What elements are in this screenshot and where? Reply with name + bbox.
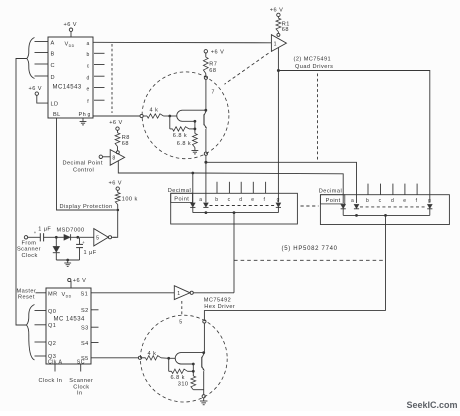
resistor 6.8k base-emitter bottom circle <box>169 369 194 381</box>
svg-text:+6 V: +6 V <box>73 278 86 284</box>
ground below hex driver detail <box>200 398 207 405</box>
display 2 decimal point sub-box <box>320 195 344 204</box>
pin stub segment b display 1 <box>216 182 218 194</box>
pin stub Clk A with label Clock In <box>39 364 63 384</box>
wire decimal point into display 1 <box>192 173 194 203</box>
pin stub output b <box>94 52 105 54</box>
display 2 segment pin labels <box>351 198 431 204</box>
wire capacitor to diode node <box>44 236 55 238</box>
svg-text:Clock In: Clock In <box>39 378 63 384</box>
ground at Ph pin <box>80 118 87 125</box>
svg-text:Point: Point <box>326 198 341 204</box>
svg-text:Q2: Q2 <box>48 341 56 347</box>
svg-text:f: f <box>264 197 266 203</box>
pin stub segment d display 1 <box>240 182 242 194</box>
svg-text:g: g <box>428 198 431 204</box>
pin stub segment f display 2 <box>416 184 418 195</box>
dashed leader from driver 1 to detail circle <box>225 53 269 84</box>
wire emitter output down through circle boundary <box>205 129 207 152</box>
diode decimal point LED display 1 <box>190 203 195 208</box>
power +6V for R8 <box>109 120 122 130</box>
pin stub input B <box>35 52 49 54</box>
svg-text:(5) HP5082 7740: (5) HP5082 7740 <box>282 246 338 252</box>
terminal segment g wire entering circle <box>140 114 143 117</box>
terminal scan wire entering circle <box>138 356 141 359</box>
svg-text:Decimal Point: Decimal Point <box>63 160 103 166</box>
dashed continuation between display 1 and 2 <box>301 205 319 207</box>
pin stub output c <box>94 64 105 66</box>
svg-text:S1: S1 <box>81 292 89 298</box>
pin stub output S2 <box>91 309 99 311</box>
dashed leader from hex driver to bottom detail circle <box>181 301 183 315</box>
svg-text:b: b <box>215 197 218 203</box>
svg-text:c: c <box>87 64 90 70</box>
node diode clamp input <box>55 236 58 239</box>
pin stub SC with label Scanner Clock In <box>69 364 93 397</box>
node collector junction at R7 line <box>204 109 207 112</box>
pin stub output Q2 <box>35 341 47 343</box>
wire 100k node down to scanner clock buffer output <box>113 211 118 237</box>
wire display 1 common down to hex driver 1 output <box>233 213 235 293</box>
resistor 100k display protection pull-up <box>115 190 137 208</box>
dashed line omitted segment LEDs display 1 <box>210 205 275 207</box>
svg-text:+: + <box>34 230 37 235</box>
pin stub output Q3 <box>35 355 47 357</box>
power +6V for R7 <box>204 50 224 56</box>
node after series diode <box>76 236 79 239</box>
svg-text:MC75492: MC75492 <box>204 298 231 304</box>
wire emitter of first transistor down <box>194 121 196 129</box>
svg-text:+6 V: +6 V <box>64 22 77 28</box>
resistor 4k base resistor top <box>143 107 170 118</box>
pin stub output d <box>94 75 105 77</box>
svg-text:Master: Master <box>17 288 37 294</box>
wire segment a output to driver 1 input <box>93 41 271 44</box>
wire segment a down to display 1 diode <box>205 162 207 202</box>
label Decimal Point display 2 <box>319 189 342 205</box>
node emitter-base junction <box>194 120 197 123</box>
pin stub output f <box>94 99 105 101</box>
diode segment a LED display 2 <box>354 204 359 209</box>
svg-text:8: 8 <box>112 156 115 162</box>
node segment a branch node <box>204 161 207 164</box>
inverter 5 scanner clock buffer <box>94 229 112 246</box>
node common bus takeoff display 2 <box>384 214 387 217</box>
node display protection junction <box>116 209 119 212</box>
svg-text:f: f <box>416 198 418 204</box>
svg-text:Q1: Q1 <box>48 323 56 329</box>
pin stub output S3 <box>91 326 99 328</box>
dashed line omitted displays with label (5) HP5082-7740 <box>234 246 385 260</box>
svg-text:d: d <box>391 198 394 204</box>
transistor Q7 NPN darlington in driver 7 <box>170 110 207 129</box>
wire to segment a node <box>205 155 207 162</box>
svg-text:SeekIC.com: SeekIC.com <box>407 400 458 410</box>
node decimal point branch display 1 <box>191 172 194 175</box>
wire common bus horizontal display 2 <box>343 214 430 216</box>
svg-text:f: f <box>87 99 89 105</box>
node emitter-base junction bottom <box>192 363 195 366</box>
terminal circle boundary crossing ground <box>202 395 205 398</box>
terminal wire entering detail circle from R7 <box>204 74 207 110</box>
label (2) MC75491 Quad Drivers <box>294 57 334 70</box>
svg-text:7: 7 <box>212 90 215 96</box>
wire hex driver output to display 1 common <box>193 292 234 294</box>
svg-text:DD: DD <box>69 44 75 48</box>
pin stub segment c display 2 <box>380 184 382 195</box>
svg-text:g: g <box>88 112 91 118</box>
wire base node down to 6.8k <box>169 116 171 129</box>
wire BCD bus from MC14534 outputs to MC14543 inputs <box>16 59 27 326</box>
svg-text:(2) MC75491: (2) MC75491 <box>294 57 332 63</box>
svg-text:1: 1 <box>274 41 277 47</box>
resistor 6.8k base-emitter top circle <box>170 127 195 139</box>
pin stub segment b display 2 <box>367 184 369 195</box>
svg-text:Scanner: Scanner <box>69 378 93 384</box>
pin stub segment f display 1 <box>265 182 267 194</box>
node driver 1 output branch <box>277 69 280 72</box>
svg-text:+6 V: +6 V <box>29 86 42 92</box>
dashed bus continuation line for segment outputs b-f <box>111 44 113 113</box>
svg-text:g: g <box>277 197 280 203</box>
wire 310 to emitter line <box>193 389 203 391</box>
svg-text:4 k: 4 k <box>150 107 159 113</box>
IC U1 MC14543 BCD-to-seven-segment latch/decoder <box>48 37 93 118</box>
power +6V for R1 <box>270 8 283 17</box>
wire LD to +6V <box>37 95 48 103</box>
svg-text:c: c <box>379 198 382 204</box>
node collector junction bottom <box>202 351 205 354</box>
svg-text:Ph: Ph <box>79 112 87 118</box>
diode D2 MSD7000 clamp to ground <box>53 238 60 260</box>
svg-text:Clock: Clock <box>73 384 89 390</box>
wire BL blanking input to display protection node <box>57 118 116 210</box>
pin stub output S4 <box>91 342 99 344</box>
svg-text:6.8 k: 6.8 k <box>173 133 187 139</box>
diode segment g LED display 1 <box>276 203 281 208</box>
diode segment a LED display 1 <box>203 203 208 208</box>
diode decimal point LED display 2 <box>341 204 346 209</box>
wire driver 8 output to decimal point diodes <box>118 161 193 173</box>
svg-text:Hex Driver: Hex Driver <box>204 304 235 310</box>
node segment a to bus display 2 <box>355 214 358 217</box>
wire diode node to buffer 5 input <box>79 236 94 238</box>
detail circle of hex driver 5 internals <box>140 315 227 402</box>
svg-text:b: b <box>87 52 90 58</box>
svg-text:+6 V: +6 V <box>211 50 224 56</box>
node common bus takeoff display 1 <box>233 211 236 214</box>
pin stub input D <box>35 75 49 77</box>
svg-text:MC 14534: MC 14534 <box>54 317 85 323</box>
wire segment a to display 2 <box>206 162 357 203</box>
wire base node down to 6.8k bottom <box>168 358 170 371</box>
ground for clock input clamp <box>64 260 71 266</box>
dashed leader below quad drivers label <box>317 74 319 162</box>
wire first emitter down bottom <box>192 364 194 371</box>
IC U2 MC14534 counter <box>46 288 91 365</box>
bus bracket for BCD inputs A-D <box>27 38 35 79</box>
svg-text:a: a <box>351 198 354 204</box>
driver 1 MC75492 hex driver digit driver <box>174 286 193 300</box>
display 2 HP5082-7740 outline <box>320 195 449 225</box>
terminal Master Reset input <box>17 288 47 300</box>
svg-text:R7: R7 <box>209 61 217 67</box>
svg-text:+6 V: +6 V <box>270 8 283 14</box>
driver 1 MC75491 segment driver <box>271 32 286 52</box>
svg-text:e: e <box>87 87 90 93</box>
power +6V supply for MC14543 VDD <box>64 22 77 37</box>
svg-text:a: a <box>87 41 90 47</box>
svg-text:1 μF: 1 μF <box>38 227 51 233</box>
terminal collector wire entering circle <box>203 320 206 352</box>
dashed line omitted segment LEDs display 2 <box>360 206 426 208</box>
svg-text:e: e <box>403 198 406 204</box>
resistor 4k base resistor bottom <box>142 351 169 360</box>
node ground bus junction <box>66 259 69 262</box>
svg-text:DD: DD <box>66 294 72 298</box>
display 1 segment pin labels <box>199 197 280 203</box>
pin stub segment c display 1 <box>228 182 230 194</box>
node base node of transistor Q5 <box>167 357 170 360</box>
svg-text:BL: BL <box>53 112 61 118</box>
resistor R7 68 ohm <box>203 53 217 74</box>
diode D1 MSD7000 series <box>56 234 76 240</box>
svg-text:C: C <box>51 63 56 69</box>
wire driver output continues to display 1 segment g <box>277 71 279 203</box>
wire segment g to bus display 2 <box>429 209 431 216</box>
resistor R1 68 ohm <box>276 17 290 34</box>
terminal From Scanner Clock <box>17 236 41 259</box>
svg-text:Q0: Q0 <box>48 309 56 315</box>
wire segment g to bus <box>277 207 279 212</box>
svg-text:5: 5 <box>96 235 99 241</box>
wire display 2 common cathode bus <box>342 209 344 216</box>
pin stub output Q0 <box>35 310 47 312</box>
svg-text:68: 68 <box>122 141 129 147</box>
bus bracket for counter outputs Q0-Q3 <box>27 305 35 361</box>
node base node of transistor Q7 <box>168 115 171 118</box>
svg-text:6.8 k: 6.8 k <box>171 375 185 381</box>
capacitor C1 1uF coupling <box>38 227 51 242</box>
svg-text:d: d <box>239 197 242 203</box>
svg-text:5: 5 <box>179 320 182 326</box>
pin stub output Q1 <box>35 324 47 326</box>
svg-text:From: From <box>22 240 37 246</box>
transistor Q5 NPN darlington in hex driver 5 <box>169 353 205 372</box>
power +6V for 100k pull-up <box>109 180 122 190</box>
power +6V supply for MC14534 VDD <box>68 278 87 288</box>
svg-text:310: 310 <box>178 382 189 388</box>
terminal circle boundary crossing bottom <box>204 152 207 155</box>
svg-text:100 k: 100 k <box>122 197 138 203</box>
detail circle of driver 7 internals <box>142 72 229 159</box>
resistor 310 to emitter bottom circle <box>178 371 196 389</box>
svg-text:Decimal: Decimal <box>168 188 191 194</box>
node resistor divider junction <box>194 127 197 130</box>
wire segment g output from Ph row to 4k resistor <box>93 115 140 117</box>
driver 8 decimal point control MC75491 <box>110 147 124 166</box>
pin stub input A <box>35 41 49 43</box>
terminal Decimal Point Control input <box>63 155 111 173</box>
svg-text:S4: S4 <box>81 341 89 347</box>
svg-text:MR: MR <box>48 292 58 298</box>
svg-text:1: 1 <box>177 291 180 297</box>
label Decimal Point display 1 <box>168 188 191 202</box>
svg-text:68: 68 <box>282 27 289 33</box>
svg-text:e: e <box>251 197 254 203</box>
svg-text:6.8 k: 6.8 k <box>177 141 191 147</box>
svg-text:Clock: Clock <box>22 253 38 259</box>
svg-text:MSD7000: MSD7000 <box>57 228 85 234</box>
wire emitter down to ground terminal <box>203 371 205 395</box>
wire driver 1 output down to segment g display 1 <box>277 48 279 71</box>
pin stub input C <box>35 63 49 65</box>
display 1 HP5082-7740 outline <box>171 193 298 224</box>
svg-text:+6 V: +6 V <box>109 180 122 186</box>
svg-text:B: B <box>51 51 55 57</box>
ground inside top detail circle <box>192 148 199 154</box>
pin stub segment e display 1 <box>252 182 254 194</box>
svg-text:S3: S3 <box>81 326 89 332</box>
wire digit bus from display 2 common to driver 5 collector <box>204 311 385 320</box>
svg-text:Point: Point <box>174 197 189 203</box>
wire decimal point line to display 2 <box>193 173 343 203</box>
svg-text:Control: Control <box>73 167 94 173</box>
svg-text:b: b <box>366 198 369 204</box>
display 1 decimal point sub-box <box>171 193 193 202</box>
svg-text:c: c <box>228 197 231 203</box>
svg-text:d: d <box>87 75 90 81</box>
svg-text:A: A <box>51 40 55 46</box>
svg-text:In: In <box>77 391 83 397</box>
power +6V supply for LD pin <box>29 86 42 95</box>
node segment a to bus <box>205 211 208 214</box>
svg-text:Decimal: Decimal <box>319 189 342 195</box>
svg-text:LD: LD <box>51 102 59 108</box>
wire common bus horizontal display 1 <box>193 212 279 214</box>
svg-text:Scanner: Scanner <box>17 247 41 253</box>
pin stub segment e display 2 <box>404 184 406 195</box>
wire S1 scan output to hex driver input <box>91 292 174 294</box>
wire buffer 5 output to display protection node <box>112 236 117 238</box>
pin stub segment d display 2 <box>392 184 394 195</box>
wire display 2 common down to hex driver bus <box>385 215 387 310</box>
svg-text:+6 V: +6 V <box>109 120 122 126</box>
node resistor junction bottom <box>192 370 195 373</box>
svg-text:S2: S2 <box>81 308 89 314</box>
diode segment g LED display 2 <box>427 204 432 209</box>
label MC75492 Hex Driver <box>204 298 235 310</box>
resistor R8 68 ohm <box>115 130 130 147</box>
svg-text:1 μF: 1 μF <box>84 250 97 256</box>
svg-text:D: D <box>51 75 56 81</box>
svg-text:Reset: Reset <box>18 295 35 301</box>
svg-text:Quad Drivers: Quad Drivers <box>295 64 333 70</box>
svg-text:68: 68 <box>209 68 216 74</box>
resistor 6.8k to ground top circle <box>177 129 198 148</box>
wire driver output to display 2 segment g <box>278 71 429 203</box>
svg-text:Display Protection: Display Protection <box>60 204 113 210</box>
wire display 1 common cathode bus <box>192 207 194 212</box>
svg-text:a: a <box>199 197 202 203</box>
svg-text:MC14543: MC14543 <box>53 85 82 91</box>
capacitor C2 1uF filter <box>76 238 97 260</box>
wire clamp ground bus <box>56 259 79 261</box>
wire scanner clock input to capacitor <box>28 236 40 238</box>
svg-text:4 k: 4 k <box>148 351 157 357</box>
wire S5 output to 4k resistor <box>91 357 138 359</box>
pin stub output e <box>94 87 105 89</box>
